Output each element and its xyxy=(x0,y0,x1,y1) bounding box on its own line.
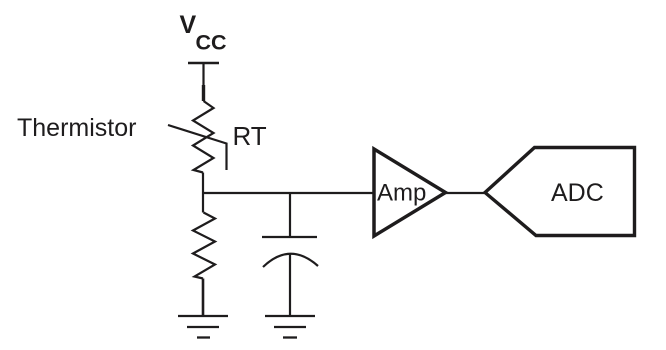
svg-text:RT: RT xyxy=(233,121,267,151)
svg-text:ADC: ADC xyxy=(551,179,604,207)
wire node to amplifier input xyxy=(203,192,374,194)
ground (right) xyxy=(265,316,315,338)
wire node to capacitor C1 xyxy=(289,193,291,237)
svg-text:Amp: Amp xyxy=(377,180,426,207)
thermistor RT xyxy=(168,101,227,173)
svg-text:Thermistor: Thermistor xyxy=(17,114,136,142)
wire VCC rail to thermistor xyxy=(202,63,204,101)
power VCC label xyxy=(180,11,227,55)
amplifier U1 xyxy=(374,149,446,236)
wire capacitor C1 to ground xyxy=(289,255,291,317)
capacitor C1 xyxy=(262,237,318,267)
ADC block U2 xyxy=(485,148,635,236)
svg-text:V: V xyxy=(180,11,197,39)
label Amp xyxy=(377,180,426,207)
wire node to resistor R1 xyxy=(202,193,204,213)
label ADC xyxy=(551,179,604,207)
svg-text:CC: CC xyxy=(196,31,227,55)
resistor R1 xyxy=(193,213,215,279)
label Thermistor xyxy=(17,114,136,142)
wire amplifier output to ADC xyxy=(446,192,486,194)
ground (left) xyxy=(178,316,228,338)
label RT xyxy=(233,121,267,151)
wire resistor R1 to ground xyxy=(202,279,205,317)
wire thermistor to node xyxy=(202,173,204,194)
VCC rail xyxy=(188,62,219,64)
